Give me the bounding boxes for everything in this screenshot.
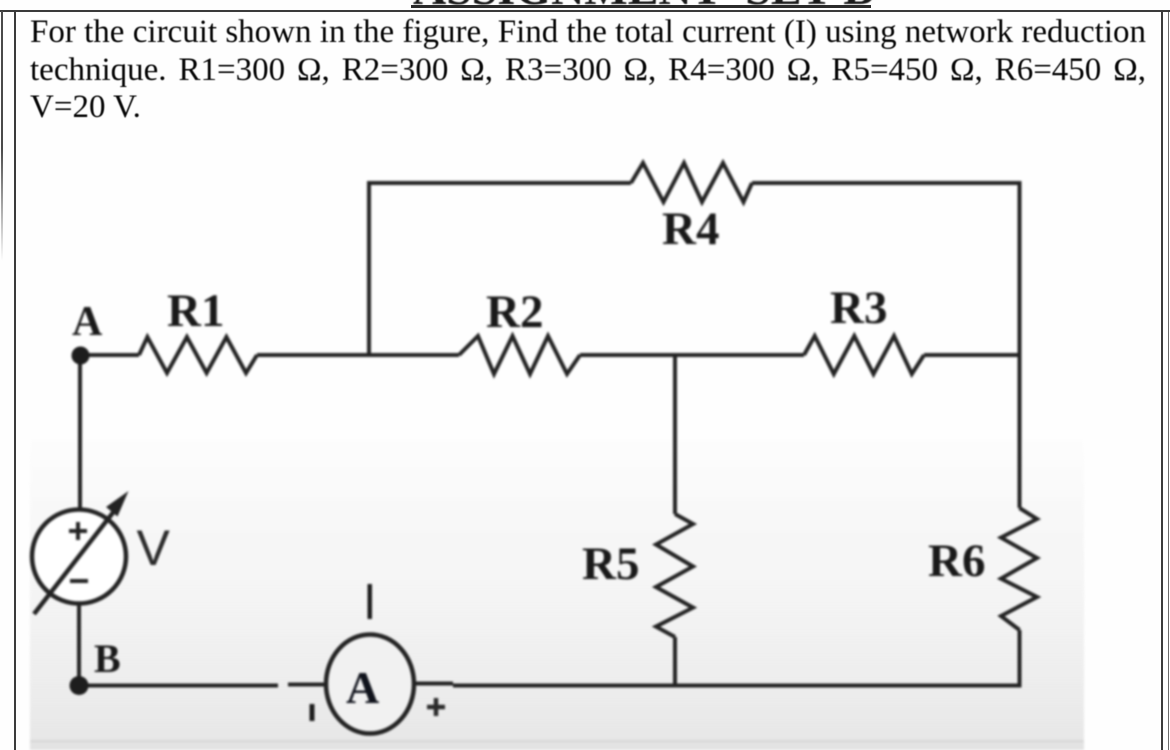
wire: bottom right long segment [453, 684, 1022, 688]
node A dot [72, 347, 90, 365]
wire: R6 bottom to bottom wire [1018, 630, 1022, 686]
resistor R6 [1001, 508, 1037, 630]
wire: right rail down to R6 [1018, 181, 1022, 508]
wire: R2 to R5 junction [580, 353, 675, 357]
node B dot [70, 676, 89, 695]
svg-text:R4: R4 [662, 203, 719, 255]
wire: R5 branch from main wire [673, 355, 677, 514]
V source minus sign [70, 579, 88, 583]
voltage source V (circle) [32, 510, 126, 604]
svg-text:B: B [94, 636, 121, 681]
wire: riser from main wire to top wire [367, 183, 371, 355]
title underline [411, 5, 871, 8]
wire: top right segment [752, 181, 1020, 185]
figure bottom strip [30, 740, 1084, 743]
wire: R1 to R2 [257, 353, 459, 357]
svg-text:R6: R6 [928, 535, 985, 587]
right outer border [1168, 12, 1170, 750]
wire: ammeter right terminal [413, 682, 453, 686]
wire: main horizontal A to R1 [80, 353, 139, 357]
current I bar above ammeter [368, 584, 373, 619]
problem text [30, 14, 1146, 127]
wire: ammeter left terminal [288, 683, 327, 687]
svg-text:R5: R5 [582, 538, 639, 590]
figure background gradient [30, 430, 1084, 742]
plus sign right of ammeter [427, 698, 445, 716]
svg-text:V: V [137, 520, 171, 576]
left outer table border (fades) [1, 11, 3, 261]
wire: bottom from B to ammeter gap [79, 684, 278, 688]
title ASSIGNMENT SET-B (cut off at top) [413, 0, 874, 15]
wire: left rail A down to V source [78, 355, 82, 510]
svg-text:R3: R3 [830, 282, 887, 334]
svg-text:R2: R2 [486, 286, 543, 338]
wire: V source to node B [77, 605, 81, 686]
resistor R3 [804, 336, 924, 374]
wire: R3 to right rail [924, 353, 1020, 357]
wire: R5 bottom to bottom wire [673, 637, 677, 686]
resistor R5 [656, 514, 693, 637]
resistor R1 [139, 337, 257, 373]
right cell border [1161, 11, 1163, 750]
resistor R2 [459, 336, 580, 374]
wire: top left segment [367, 181, 631, 185]
V source plus sign [69, 522, 87, 540]
V source diagonal arrow [34, 510, 115, 614]
svg-text:A: A [346, 662, 379, 713]
svg-text:R1: R1 [167, 285, 224, 337]
wire: junction to R3 [675, 353, 804, 357]
small tick lower-left of ammeter [310, 704, 315, 721]
ammeter A (circle) [326, 635, 414, 734]
svg-text:A: A [72, 299, 103, 345]
resistor R4 [631, 163, 752, 202]
table top border [0, 10, 1170, 12]
left cell divider [14, 11, 16, 750]
